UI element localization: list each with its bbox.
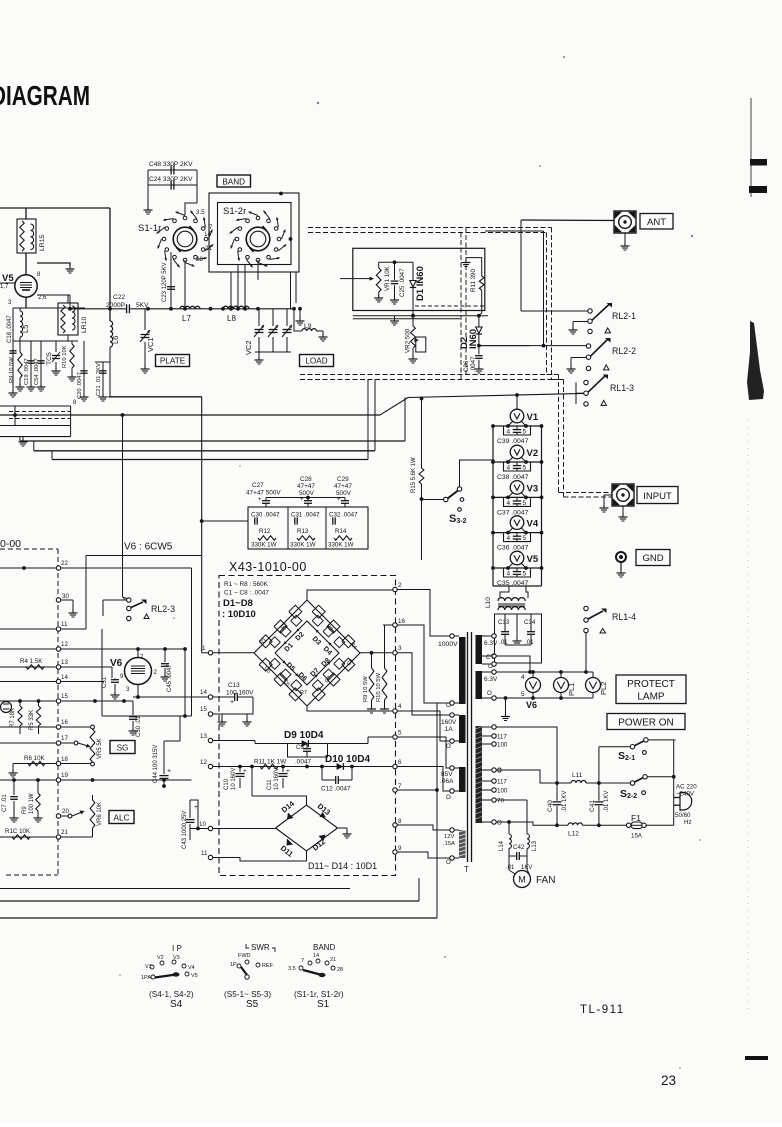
svg-text:5: 5: [521, 691, 525, 698]
svg-text:M: M: [518, 875, 526, 885]
svg-text:R7: R7: [300, 690, 307, 696]
svg-text:V1: V1: [145, 964, 152, 970]
ground R9b: [37, 815, 39, 818]
compartment bottom edge: [0, 405, 71, 407]
svg-text:C12 .0047: C12 .0047: [321, 786, 351, 793]
svg-text:R4 1.5K: R4 1.5K: [20, 658, 43, 665]
ground VC1: [144, 366, 146, 369]
svg-text:C23 120P 5KV: C23 120P 5KV: [162, 262, 168, 302]
svg-text:1,7: 1,7: [0, 284, 9, 290]
svg-text:L9: L9: [304, 323, 312, 330]
ground near V5: [69, 266, 71, 269]
transformer secondary 6.3V winding A: [476, 635, 483, 664]
svg-text:15: 15: [61, 693, 68, 700]
svg-text:1PA: 1PA: [141, 975, 151, 981]
inductor L5: [19, 308, 21, 311]
svg-text:22: 22: [61, 560, 68, 567]
wire pin3 drop: [397, 653, 450, 715]
svg-text:23: 23: [661, 1073, 676, 1088]
inductor L6: [109, 320, 111, 322]
wire S2-1 to rail: [648, 739, 676, 741]
wire V1 plate to bus: [516, 395, 518, 409]
svg-text:13: 13: [61, 659, 68, 666]
svg-text:13: 13: [200, 733, 207, 740]
coax dashed run top: [308, 227, 552, 229]
svg-text:LR10: LR10: [81, 317, 88, 333]
wire LR10 to bus: [37, 294, 70, 296]
svg-text:V5: V5: [527, 554, 539, 565]
wire pin 13 / resistor R4 1.5K: [56, 665, 60, 669]
svg-text:ALC: ALC: [114, 813, 130, 822]
connector ANT: [614, 211, 636, 233]
ground C51: [114, 692, 116, 695]
svg-text:21: 21: [330, 957, 336, 963]
relay contact RL2-2: [586, 344, 590, 348]
ground band caps: [147, 207, 149, 210]
fan motor M: [514, 871, 531, 888]
ground RL2-1: [573, 321, 588, 323]
svg-text:2000P: 2000P: [106, 302, 126, 309]
svg-text:C25 .0047: C25 .0047: [399, 268, 406, 297]
wire bottom bus y901: [0, 900, 419, 902]
wire to RL2-1: [521, 310, 588, 312]
svg-text:11: 11: [61, 621, 68, 628]
svg-text:4: 4: [507, 465, 511, 472]
svg-text:1000V: 1000V: [438, 641, 458, 648]
switch S2-1: [630, 745, 634, 749]
ground C20: [83, 394, 85, 397]
svg-text:330K 1W: 330K 1W: [251, 542, 277, 549]
svg-text:C21 .01 2KV: C21 .01 2KV: [96, 363, 102, 396]
svg-text:(S4-1, S4-2): (S4-1, S4-2): [149, 990, 194, 999]
svg-text:S1: S1: [317, 999, 330, 1010]
svg-text:DIAGRAM: DIAGRAM: [0, 80, 90, 111]
wire bus left hooks: [19, 437, 21, 441]
svg-text:14: 14: [204, 231, 211, 238]
wire pin9 to 12V O: [393, 850, 397, 854]
svg-text:L12: L12: [568, 831, 579, 838]
wire bus y459.5: [52, 459, 368, 461]
svg-text:+: +: [243, 768, 247, 775]
svg-text:0-00: 0-00: [0, 538, 21, 550]
svg-text:RL1-3: RL1-3: [610, 383, 634, 393]
scan mark vertical line right edge: [750, 98, 752, 197]
svg-text:C42: C42: [513, 844, 525, 851]
svg-text:C1 ~ C8 : .0047: C1 ~ C8 : .0047: [224, 590, 269, 597]
svg-text:47+47: 47+47: [297, 483, 315, 490]
svg-text:4: 4: [507, 535, 511, 542]
svg-text:100: 100: [497, 788, 508, 795]
wire to RL2-2: [479, 345, 586, 347]
wire pin6 to 85V O: [397, 767, 450, 792]
svg-text:C7 .01: C7 .01: [2, 794, 8, 812]
coax dashed drop to shield pair: [465, 228, 467, 375]
svg-text:3.5: 3.5: [196, 209, 205, 216]
scan streak faint: [747, 420, 749, 1010]
svg-text:O: O: [446, 794, 451, 801]
relay contact RL2-1: [588, 309, 592, 313]
svg-text:12V: 12V: [444, 834, 454, 840]
svg-text:16: 16: [61, 719, 68, 726]
ground C54: [40, 384, 42, 387]
ground between C33 C34: [516, 614, 518, 638]
svg-text:V6: V6: [526, 700, 537, 710]
svg-text:L10: L10: [485, 597, 492, 608]
svg-text:6.3V: 6.3V: [484, 676, 498, 683]
wire vertical x110 (right edge of compartment): [109, 208, 111, 321]
dashed pair mid: [300, 374, 559, 376]
ground R6: [12, 764, 14, 771]
svg-text:S4: S4: [170, 999, 183, 1010]
ground R11: [465, 260, 467, 263]
potentiometer VR1 10K: [378, 262, 380, 268]
wire V6 box top: [86, 555, 202, 557]
ground L9: [322, 334, 324, 337]
svg-text:2: 2: [398, 582, 402, 589]
wire pin 18: [56, 761, 60, 765]
svg-text:RL2-3: RL2-3: [151, 604, 175, 614]
label box ALC: [109, 811, 134, 824]
svg-text:15: 15: [200, 706, 207, 713]
svg-text:500V: 500V: [336, 490, 352, 497]
svg-text:R13: R13: [297, 528, 309, 535]
svg-text:1P: 1P: [230, 962, 237, 968]
capacitor C50 .01: [132, 701, 134, 715]
relay contact RL2-3: [103, 599, 127, 601]
grounds under pin15 wire: [221, 714, 223, 719]
ground lamp rail: [505, 698, 507, 714]
svg-text:C39 .0047: C39 .0047: [497, 438, 529, 445]
coax dashed to INPUT: [558, 375, 560, 493]
svg-text:+: +: [167, 768, 171, 775]
svg-text:+: +: [258, 497, 262, 503]
switch S2-2: [630, 781, 634, 785]
svg-text:C20 .0047: C20 .0047: [77, 372, 83, 399]
svg-text:L7: L7: [182, 314, 191, 323]
svg-text:10: 10: [199, 821, 206, 828]
svg-text:V2: V2: [527, 448, 539, 459]
wire pin8 to 12V: [393, 823, 397, 827]
svg-text:BAND: BAND: [313, 943, 335, 952]
inductor L9: [294, 309, 302, 331]
bridge rectifier diamond D1-D8: [254, 600, 360, 706]
svg-text:FAN: FAN: [536, 875, 555, 886]
transformer secondary 6.3V winding B: [476, 671, 483, 699]
svg-text:L5: L5: [21, 325, 30, 333]
wire box right verticals: [290, 272, 292, 309]
svg-text:TL-911: TL-911: [580, 1004, 625, 1016]
svg-text:RL2-2: RL2-2: [612, 346, 636, 356]
svg-text:R10 10K: R10 10K: [62, 345, 68, 368]
svg-text:VR1 10K: VR1 10K: [384, 265, 391, 291]
svg-text:.01 1KV: .01 1KV: [562, 791, 568, 812]
grounds INPUT: [604, 494, 612, 496]
transformer primary 1000V winding: [459, 637, 466, 704]
label box ANT: [640, 214, 673, 230]
wire pin 11: [56, 627, 60, 631]
svg-text:O: O: [487, 690, 492, 697]
svg-text:C28: C28: [300, 476, 312, 483]
wire S1-1r bottom to bus: [184, 260, 186, 309]
svg-text:C27: C27: [252, 482, 264, 489]
svg-text:18: 18: [61, 756, 68, 763]
svg-text:C9: C9: [296, 745, 304, 751]
svg-text:L11: L11: [572, 772, 583, 779]
ground pin30: [72, 610, 74, 613]
transformer secondary main winding: [476, 726, 483, 823]
svg-text:C43 1000 25V: C43 1000 25V: [182, 811, 188, 849]
wire bridge left to pin 1: [208, 651, 212, 655]
svg-text:11: 11: [201, 850, 208, 857]
tube V3: [510, 481, 524, 495]
svg-text:V5: V5: [2, 273, 14, 284]
tube column rails: [492, 426, 494, 587]
capacitor C45 .0047: [164, 649, 166, 662]
tube V4: [510, 516, 524, 530]
tube V1: [510, 409, 524, 423]
svg-text:3.5: 3.5: [288, 966, 296, 972]
svg-text:2,6: 2,6: [38, 295, 47, 301]
connector INPUT: [612, 484, 634, 506]
svg-text:: 10D10: : 10D10: [222, 609, 256, 620]
wire top bus y208: [0, 207, 110, 209]
box around S1-2r inner: [218, 203, 292, 265]
AC plug: [674, 797, 680, 799]
wire pin 6: [393, 764, 397, 768]
svg-text:C18 .0047: C18 .0047: [7, 315, 13, 343]
wire pin 11b: [208, 855, 212, 859]
svg-text:(S5-1~ S5-3): (S5-1~ S5-3): [224, 990, 271, 999]
wire SWR top rail: [379, 261, 413, 263]
ground C18: [12, 390, 14, 393]
dashed box left column: [0, 548, 58, 550]
svg-text:POWER ON: POWER ON: [618, 718, 674, 729]
wire bridge top stub: [252, 796, 307, 805]
wire vertical x201 to X43 pin1: [202, 652, 209, 654]
svg-text:C37 .0047: C37 .0047: [497, 509, 529, 516]
svg-text:VC1: VC1: [146, 337, 155, 352]
wire pin5 to 85V: [397, 737, 450, 768]
box SWR detector: [353, 248, 485, 310]
label box BAND: [217, 175, 251, 187]
svg-text:330K 1W: 330K 1W: [290, 542, 316, 549]
svg-text:4: 4: [507, 571, 511, 578]
switch detail S4 lever: [155, 975, 176, 978]
label box POWER ON: [607, 714, 685, 730]
wire pin 30 bracket: [56, 598, 60, 602]
pilot lamp PL2: [586, 678, 601, 693]
switch S3-2: [422, 499, 444, 501]
wire pin 5: [393, 735, 397, 739]
svg-text:47+47: 47+47: [334, 483, 352, 490]
svg-text:RL1-4: RL1-4: [612, 612, 636, 622]
svg-text:R10 10 5W: R10 10 5W: [376, 672, 382, 702]
svg-text:O: O: [446, 859, 451, 866]
wire bus y441: [20, 440, 405, 442]
wire ANT feed: [521, 219, 614, 222]
svg-text:6.3V: 6.3V: [484, 640, 498, 647]
svg-text:5: 5: [523, 571, 527, 578]
transformer primary 12V winding: [459, 830, 466, 858]
wire S2-1 left leg: [599, 746, 630, 748]
svg-text:4: 4: [507, 500, 511, 507]
wire S2-2 to rail: [647, 776, 674, 778]
svg-text:R12: R12: [259, 528, 271, 535]
coax dashed short inside SWR: [415, 305, 485, 307]
wire pin 21: [56, 835, 60, 839]
wire plate bus y309: [70, 308, 294, 310]
svg-text:LOAD: LOAD: [305, 357, 327, 366]
scan speckles: [317, 102, 319, 104]
tube V6: [125, 658, 152, 685]
potentiometer VR5 5K: [91, 725, 95, 729]
svg-text:500V: 500V: [299, 490, 315, 497]
box around S1-2r outer: [209, 193, 299, 272]
svg-text:V6 : 6CW5: V6 : 6CW5: [124, 542, 173, 553]
wire bus y450.8: [34, 450, 375, 452]
svg-text:L6: L6: [111, 336, 120, 344]
label box PLATE: [156, 355, 190, 367]
svg-text:C29: C29: [337, 476, 349, 483]
scan mark black wedge: [747, 321, 764, 400]
svg-text:19: 19: [61, 772, 68, 779]
svg-text:R9: R9: [22, 806, 28, 814]
svg-text:100 1W: 100 1W: [29, 793, 35, 814]
tube V5: [15, 275, 37, 297]
transformer primary 160V winding: [459, 715, 466, 743]
svg-text:PL1: PL1: [567, 683, 576, 696]
svg-text:VC2: VC2: [244, 340, 253, 355]
svg-text:C22: C22: [113, 294, 125, 301]
svg-text:V3: V3: [527, 483, 539, 494]
label box SG: [110, 741, 135, 754]
svg-text:10 160V: 10 160V: [231, 768, 237, 790]
svg-text:16: 16: [398, 618, 405, 625]
svg-text:330K 1W: 330K 1W: [328, 542, 354, 549]
ground C21: [102, 394, 104, 397]
svg-text:100: 100: [497, 742, 508, 749]
wire V6 cathode to I4: [137, 685, 139, 698]
label box GND: [636, 550, 670, 566]
svg-text:30: 30: [62, 593, 69, 600]
svg-text:28: 28: [337, 967, 343, 973]
svg-text:R11 1K 1W: R11 1K 1W: [254, 759, 287, 766]
ground ANT: [624, 233, 626, 243]
wire caps right leg: [196, 170, 198, 203]
svg-text:R1C 10K: R1C 10K: [5, 828, 31, 835]
svg-text:C50 .01: C50 .01: [136, 715, 142, 737]
svg-text:RL2-1: RL2-1: [612, 311, 636, 321]
svg-text:R15 5.6K 1W: R15 5.6K 1W: [411, 457, 417, 493]
box L10/C33/C34: [495, 614, 542, 663]
ground C45: [164, 674, 166, 677]
svg-text:14: 14: [200, 689, 207, 696]
ground C26: [478, 366, 480, 369]
svg-text:C51: C51: [102, 676, 108, 688]
capacitor C37 .0047: [513, 500, 521, 502]
svg-text:7: 7: [301, 958, 304, 964]
svg-text:C10: C10: [224, 778, 230, 790]
svg-text:3: 3: [398, 645, 402, 652]
dashed box X43 board: [219, 576, 396, 876]
wire S3-2 up to V1 rail: [460, 460, 495, 487]
potentiometer VR6 10K: [90, 800, 95, 828]
ground below SWR box: [394, 316, 396, 318]
svg-text:C44 100 315V: C44 100 315V: [153, 745, 159, 783]
svg-text:INPUT: INPUT: [643, 491, 672, 502]
inductor-resistor LR10: [58, 303, 78, 335]
svg-text:CT: CT: [486, 654, 494, 661]
wire bridge bottom to pin 4: [307, 706, 393, 711]
svg-text:SWR: SWR: [251, 943, 270, 952]
svg-text:5: 5: [523, 465, 527, 472]
svg-text:VR6 10K: VR6 10K: [97, 802, 103, 826]
capacitor C38 .0047: [513, 465, 521, 467]
svg-text:28: 28: [196, 256, 203, 263]
svg-text:PROTECT: PROTECT: [627, 679, 675, 690]
svg-text:S1-2r: S1-2r: [223, 206, 246, 217]
scan mark bottom dash: [745, 1056, 768, 1060]
svg-text:7: 7: [209, 224, 213, 231]
wire bus RL1-3 feed: [408, 393, 584, 397]
svg-text:C19 .0047: C19 .0047: [24, 358, 30, 385]
wire S1-2r drops to L8 area: [230, 272, 232, 309]
wire pin 17 arrow to VR5: [56, 741, 60, 745]
pilot lamp PL1: [554, 678, 569, 693]
wire 117 tap to filter: [496, 727, 557, 783]
svg-text:9: 9: [398, 845, 402, 852]
wire pin 13 row: [208, 738, 212, 742]
svg-text:70: 70: [497, 798, 504, 805]
variable capacitor VC1: [144, 309, 146, 330]
svg-text:5: 5: [523, 429, 527, 436]
svg-text:V1: V1: [527, 412, 539, 423]
wire grid stub left: [0, 282, 15, 284]
svg-text:4: 4: [521, 674, 525, 681]
terminal GND: [616, 552, 626, 562]
svg-text:6: 6: [398, 759, 402, 766]
wire C13 loop to pin 15: [213, 697, 253, 714]
tube V2: [510, 445, 524, 459]
svg-text:100 160V: 100 160V: [226, 690, 254, 697]
svg-text:X43-1010-00: X43-1010-00: [229, 560, 307, 574]
svg-text:AC 220: AC 220: [676, 784, 697, 791]
svg-text:50/60: 50/60: [675, 812, 691, 819]
transformer core: [467, 632, 469, 862]
wire bridge top to pin 2: [307, 590, 393, 600]
svg-text:R9 10 5W: R9 10 5W: [9, 357, 15, 383]
ground VC2: [258, 357, 260, 360]
wire SWR pickup entry: [340, 278, 354, 280]
svg-text:17: 17: [61, 735, 68, 742]
ground C19: [30, 384, 32, 387]
inductor L12: [568, 823, 582, 825]
ground C50: [132, 728, 134, 731]
svg-text:L14: L14: [499, 840, 505, 851]
wire pin 20 arrow to VR6: [56, 814, 60, 818]
svg-text:R6 10K: R6 10K: [24, 755, 46, 762]
svg-text:C26: C26: [463, 360, 470, 372]
wire pin 22: [56, 566, 60, 570]
wire compartment lower lines: [0, 425, 71, 427]
svg-text:~240V: ~240V: [676, 791, 695, 798]
svg-text:LAMP: LAMP: [637, 692, 665, 703]
svg-text:I P: I P: [172, 944, 182, 953]
wire pin 16: [56, 725, 60, 729]
coax dashed vertical right: [551, 228, 553, 380]
wire V6 plate up: [137, 649, 139, 658]
svg-text:117: 117: [497, 779, 507, 786]
